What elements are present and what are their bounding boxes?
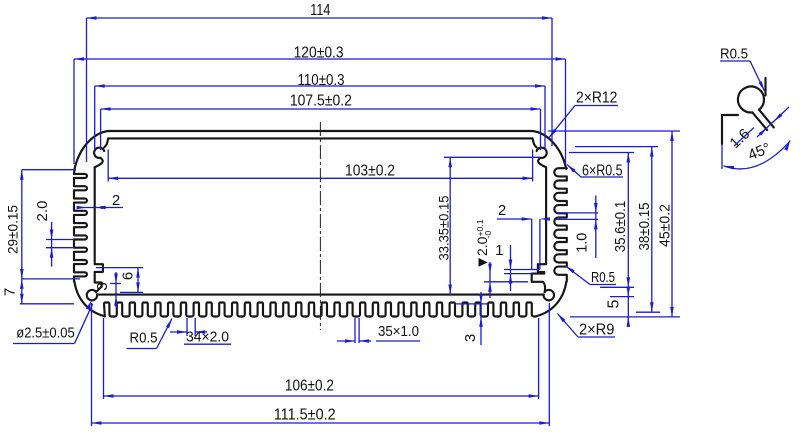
svg-text:R0.5: R0.5 xyxy=(720,46,748,63)
svg-text:3: 3 xyxy=(94,282,111,290)
svg-text:1: 1 xyxy=(495,242,503,259)
svg-text:6: 6 xyxy=(120,272,137,280)
svg-text:2.0: 2.0 xyxy=(34,201,51,222)
svg-text:45±0.2: 45±0.2 xyxy=(656,204,673,247)
svg-text:111.5±0.2: 111.5±0.2 xyxy=(274,407,336,424)
svg-text:114: 114 xyxy=(310,2,330,19)
svg-text:35×1.0: 35×1.0 xyxy=(378,324,419,340)
svg-text:2: 2 xyxy=(498,202,506,219)
svg-text:38±0.15: 38±0.15 xyxy=(636,203,653,251)
svg-text:106±0.2: 106±0.2 xyxy=(285,378,334,395)
svg-text:R0.5: R0.5 xyxy=(591,269,615,286)
svg-text:ø2.5±0.05: ø2.5±0.05 xyxy=(16,326,75,342)
svg-text:3: 3 xyxy=(462,334,479,342)
svg-text:35.6±0.1: 35.6±0.1 xyxy=(612,201,629,253)
svg-text:103±0.2: 103±0.2 xyxy=(345,162,395,179)
svg-text:5: 5 xyxy=(606,299,623,308)
svg-text:2×R9: 2×R9 xyxy=(579,322,615,339)
svg-text:107.5±0.2: 107.5±0.2 xyxy=(290,92,352,109)
svg-text:1.0: 1.0 xyxy=(574,233,591,253)
svg-text:29±0.15: 29±0.15 xyxy=(5,205,21,254)
svg-text:7: 7 xyxy=(2,288,19,296)
svg-text:110±0.3: 110±0.3 xyxy=(298,72,345,89)
svg-text:33.35±0.15: 33.35±0.15 xyxy=(436,195,452,260)
svg-text:120±0.3: 120±0.3 xyxy=(294,45,344,62)
svg-text:34×2.0: 34×2.0 xyxy=(186,330,229,346)
svg-text:2×R12: 2×R12 xyxy=(576,90,618,107)
svg-text:2: 2 xyxy=(112,192,120,209)
svg-text:R0.5: R0.5 xyxy=(130,330,158,347)
